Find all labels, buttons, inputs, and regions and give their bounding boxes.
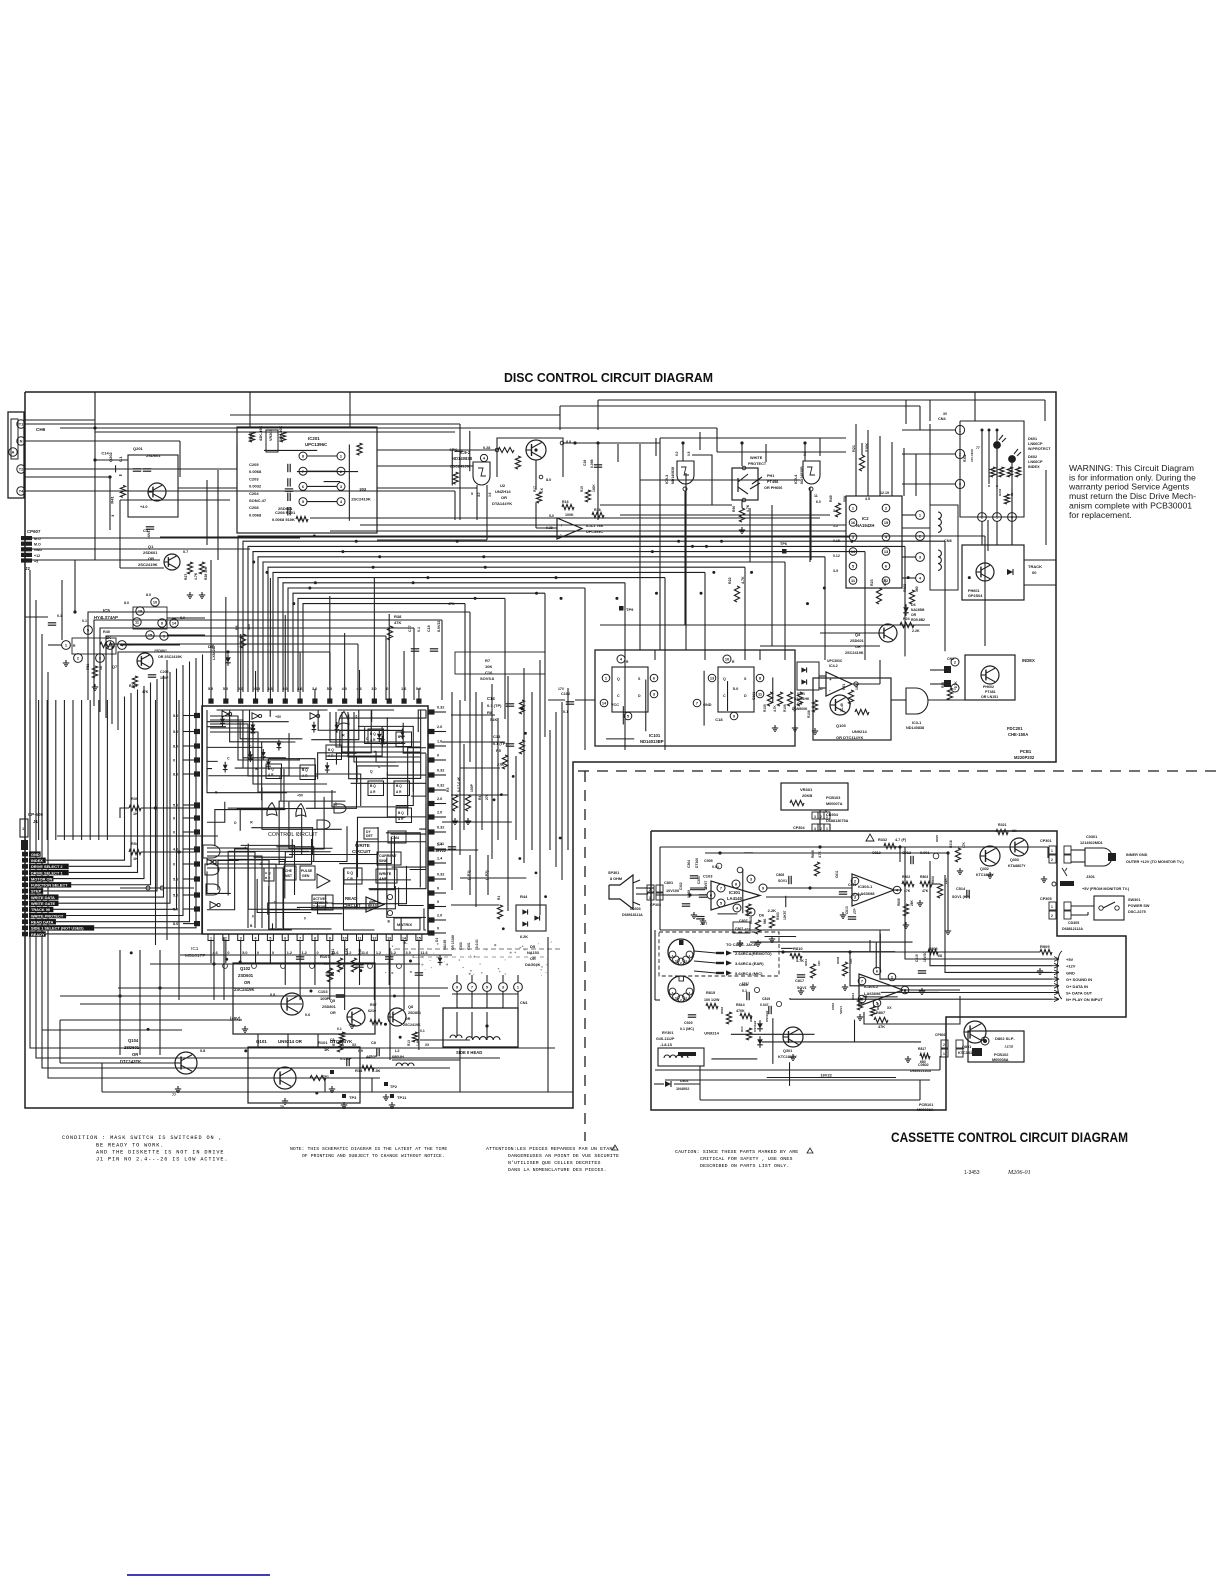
svg-text:PROTECT: PROTECT [748,462,767,466]
svg-text:C17: C17 [408,625,412,632]
svg-text:SP301: SP301 [608,871,619,875]
svg-text:1.2: 1.2 [376,951,381,955]
svg-text:100K: 100K [592,484,596,492]
svg-text:100P: 100P [470,783,474,792]
svg-text:C304: C304 [687,860,691,868]
svg-text:0.1: 0.1 [420,1029,425,1033]
svg-text:R18: R18 [594,508,601,512]
svg-text:NA1942H: NA1942H [856,523,874,528]
svg-text:77: 77 [976,446,980,450]
svg-text:R15: R15 [580,486,584,492]
svg-text:C103: C103 [703,874,713,879]
svg-text:R41: R41 [331,949,335,955]
svg-text:4.0: 4.0 [477,492,481,497]
svg-text:R302: R302 [963,454,967,462]
svg-text:2.2K: 2.2K [768,908,777,913]
svg-text:PT458: PT458 [767,480,778,484]
svg-text:2SC2419K: 2SC2419K [138,562,158,567]
svg-text:VCC: VCC [611,703,619,707]
svg-text:SIDE 0 HEAD: SIDE 0 HEAD [456,1050,482,1055]
svg-text:OR 1S188: OR 1S188 [451,935,455,950]
svg-text:10K: 10K [817,960,821,966]
svg-text:D: D [820,687,823,691]
svg-text:11: 11 [814,494,818,498]
svg-text:D6: D6 [911,603,916,607]
svg-text:2.0: 2.0 [437,914,442,918]
svg-text:PH1: PH1 [767,474,774,478]
svg-text:PCB1: PCB1 [1020,749,1032,754]
svg-text:1.2: 1.2 [302,951,307,955]
svg-text:8.0: 8.0 [173,922,178,926]
svg-text:IC2: IC2 [862,516,869,521]
svg-text:DAG04K: DAG04K [525,963,541,967]
svg-text:Q102: Q102 [240,966,251,971]
svg-text:2.0: 2.0 [437,811,442,815]
svg-text:0.1 (TP): 0.1 (TP) [487,703,502,708]
svg-text:R: R [996,484,998,488]
svg-text:B C: B C [265,876,271,880]
svg-text:3V: 3V [943,412,948,416]
svg-text:CN8: CN8 [944,539,952,543]
svg-text:Q4: Q4 [855,633,861,637]
svg-text:R41: R41 [109,496,114,504]
svg-text:+12: +12 [34,554,40,558]
svg-text:10: 10 [725,657,729,662]
svg-text:D601: D601 [1028,437,1037,441]
svg-text:1N4002: 1N4002 [676,1087,689,1091]
svg-text:27P: 27P [853,907,857,914]
svg-text:IC5: IC5 [103,608,110,613]
svg-text:R24: R24 [903,617,910,621]
svg-text:10K: 10K [485,664,492,669]
svg-text:for replacement.: for replacement. [1069,510,1132,520]
svg-text:M51017P: M51017P [185,953,206,959]
svg-text:C816: C816 [831,1002,835,1010]
svg-text:8.0: 8.0 [546,478,551,482]
svg-text:10: 10 [153,600,157,605]
svg-text:INDEX: INDEX [31,858,43,863]
svg-text:R332: R332 [878,838,887,842]
svg-text:0.0032: 0.0032 [249,484,262,489]
svg-text:R42: R42 [358,949,362,955]
svg-text:R50: R50 [732,506,736,512]
svg-text:Q104: Q104 [128,1038,139,1043]
svg-text:C912: C912 [902,851,911,855]
svg-text:R909: R909 [1040,944,1050,949]
svg-text:100P: 100P [320,996,330,1001]
svg-text:3-0: 3-0 [833,509,838,513]
svg-text:+12V: +12V [1066,964,1076,969]
svg-text:R303: R303 [998,488,1002,496]
svg-text:MATRIX: MATRIX [397,922,412,927]
svg-text:1+1K: 1+1K [341,1038,345,1046]
svg-text:R51: R51 [86,664,90,670]
svg-text:1: 1 [210,937,212,941]
svg-text:CASSETTE CONTROL CIRCUIT DIAGR: CASSETTE CONTROL CIRCUIT DIAGRAM [891,1130,1128,1145]
svg-text:L2: L2 [395,1049,399,1053]
svg-text:+5V: +5V [1066,957,1074,962]
svg-text:C808: C808 [776,873,784,877]
svg-text:D68918111A: D68918111A [622,913,643,917]
svg-text:Q302: Q302 [980,867,989,871]
svg-text:0.7: 0.7 [183,550,188,554]
svg-text:CD304: CD304 [826,813,839,817]
svg-text:R40: R40 [103,630,110,634]
svg-text:IC9-3: IC9-3 [665,475,669,484]
svg-text:-1-8-1S: -1-8-1S [660,1043,673,1047]
svg-text:FUNCTION SELECT: FUNCTION SELECT [31,883,68,888]
svg-text:CP607: CP607 [27,529,41,534]
svg-text:4.7K: 4.7K [796,959,804,963]
svg-text:C905: C905 [704,859,713,863]
svg-text:2.2K: 2.2K [912,629,920,633]
svg-text:XX: XX [887,1006,892,1010]
svg-text:Q: Q [723,677,726,681]
svg-text:DESCRIBED ON PARTS LIST ONLY.: DESCRIBED ON PARTS LIST ONLY. [700,1163,789,1169]
svg-text:IC4-2: IC4-2 [829,664,838,668]
svg-text:D802 SLP-: D802 SLP- [995,1036,1015,1041]
svg-text:DSC-2275: DSC-2275 [1128,910,1146,914]
svg-text:3: 3 [814,815,816,819]
svg-text:WRITE GATE: WRITE GATE [31,901,56,906]
svg-text:POWER SW: POWER SW [1128,904,1150,908]
svg-text:300: 300 [247,624,251,630]
svg-text:2.6: 2.6 [437,725,442,729]
svg-text:1K: 1K [133,857,138,861]
svg-text:Q: Q [370,769,373,773]
svg-text:BE READY TO WORK.: BE READY TO WORK. [96,1143,164,1149]
svg-text:R54: R54 [131,842,139,846]
svg-text:GND: GND [31,852,40,857]
svg-text:0.0068: 0.0068 [249,512,262,517]
svg-text:0: 0 [437,754,439,758]
svg-text:100-190K: 100-190K [970,448,974,462]
svg-text:7: 7 [696,701,698,706]
svg-text:1: 1 [943,1052,945,1056]
svg-text:0.32: 0.32 [437,706,444,710]
svg-text:STEP: STEP [31,889,42,894]
svg-text:2: 2 [943,1043,945,1047]
svg-text:0.1 (TP): 0.1 (TP) [493,742,507,746]
svg-text:10V100: 10V100 [666,889,679,893]
svg-text:R108: R108 [807,710,811,718]
svg-text:4.7K: 4.7K [818,851,822,858]
svg-text:8.0: 8.0 [173,745,178,749]
svg-text:1: 1 [1051,849,1053,853]
svg-text:C202: C202 [160,670,169,674]
svg-text:2: 2 [649,888,651,892]
svg-text:CP305: CP305 [1040,897,1052,901]
svg-text:0: 0 [173,817,175,821]
svg-text:READ: READ [345,896,357,901]
svg-text:5.0: 5.0 [173,894,178,898]
svg-text:8: 8 [314,937,316,941]
svg-text:0: 0 [173,863,175,867]
svg-text:R04: R04 [740,1026,744,1032]
svg-text:C11: C11 [437,841,445,846]
svg-text:R106: R106 [783,704,787,712]
svg-text:R105: R105 [763,704,767,712]
svg-text:UPC1396C: UPC1396C [305,442,328,447]
svg-text:CP303: CP303 [650,903,661,907]
svg-text:DISC CONTROL CIRCUIT DIAGRA: DISC CONTROL CIRCUIT DIAGRAM [504,371,713,385]
svg-text:A R: A R [370,790,376,794]
svg-text:0: 0 [227,951,229,955]
svg-text:R814: R814 [736,1003,745,1007]
svg-text:C6: C6 [330,1038,335,1042]
svg-text:Q5: Q5 [330,999,335,1003]
svg-text:OR: OR [330,1011,336,1015]
svg-text:0.0068 510K: 0.0068 510K [272,517,295,522]
svg-text:LN66CP: LN66CP [1028,442,1043,446]
svg-text:NA165M: NA165M [911,608,925,612]
svg-text:DTA144YK: DTA144YK [492,501,512,506]
svg-text:5.0: 5.0 [242,951,247,955]
svg-text:M206-01: M206-01 [1007,1169,1031,1176]
svg-text:IC101: IC101 [649,733,661,738]
svg-text:KS01B2: KS01B2 [765,1010,769,1022]
svg-text:0.15: 0.15 [833,539,840,543]
svg-text:D68813075A: D68813075A [826,819,849,823]
svg-text:J2: J2 [25,566,30,571]
svg-text:1.6: 1.6 [437,740,442,744]
svg-text:0: 0 [316,951,318,955]
svg-text:R4: R4 [478,796,482,800]
svg-text:OR: OR [244,980,250,985]
svg-text:1: 1 [22,827,24,831]
svg-text:SOV5.8: SOV5.8 [480,676,495,681]
svg-text:17V: 17V [558,687,565,691]
svg-text:8.0: 8.0 [173,773,178,777]
svg-text:7: 7 [861,979,863,984]
svg-text:8.0: 8.0 [124,601,129,605]
svg-text:R804: R804 [931,876,935,884]
svg-text:DANGEREUSES AN POINT DE VUE: DANGEREUSES AN POINT DE VUE SECURITE [508,1153,619,1159]
svg-text:IC303-1: IC303-1 [858,884,873,889]
svg-text:16V47: 16V47 [147,529,151,539]
svg-text:12.19: 12.19 [880,491,889,495]
svg-text:D6: D6 [759,912,765,917]
svg-text:C18: C18 [583,460,587,466]
svg-text:B Q: B Q [396,784,402,788]
svg-text:100K: 100K [565,513,574,517]
svg-text:C R: C R [347,877,353,881]
svg-text:2SD801: 2SD801 [408,1011,421,1015]
svg-text:R22: R22 [728,577,732,584]
svg-text:R811: R811 [804,959,808,966]
svg-text:A R: A R [396,790,402,794]
svg-text:10: 10 [343,937,347,941]
svg-text:303: 303 [359,486,366,491]
svg-text:R809: R809 [811,850,815,858]
svg-text:C205: C205 [249,462,259,467]
svg-text:R44: R44 [520,894,528,899]
svg-text:43K-49K: 43K-49K [259,426,263,441]
svg-text:0.0068: 0.0068 [249,469,262,474]
svg-text:NOTE: THIS SCHEMATIC DIAGRAM I: NOTE: THIS SCHEMATIC DIAGRAM IS THE LATE… [290,1146,447,1152]
svg-text:C0301: C0301 [1086,835,1097,839]
svg-text:0: 0 [437,887,439,891]
svg-text:0.047: 0.047 [760,1003,769,1007]
svg-text:0.28: 0.28 [483,446,490,450]
svg-text:G Q: G Q [265,871,271,875]
svg-text:G+ SOUND IN: G+ SOUND IN [1066,977,1092,982]
svg-text:WHITE: WHITE [750,456,763,460]
svg-text:5.0: 5.0 [733,686,739,691]
svg-text:R815: R815 [706,991,715,995]
svg-text:0: 0 [173,759,175,763]
svg-text:C18: C18 [427,625,431,632]
svg-text:Q303: Q303 [1010,858,1019,862]
svg-text:IC9-4: IC9-4 [794,474,798,484]
svg-text:RD5.6B2: RD5.6B2 [911,618,925,622]
svg-text:UN9214 OR: UN9214 OR [278,1039,303,1044]
svg-text:D68812112A: D68812112A [1062,927,1083,931]
svg-text:5.0: 5.0 [173,804,178,808]
svg-text:D1: D1 [435,938,439,942]
svg-text:2SD601: 2SD601 [143,550,158,555]
svg-text:R28 10K: R28 10K [204,566,208,580]
svg-text:DRIVE SELECT 2: DRIVE SELECT 2 [31,864,63,869]
svg-text:20KB: 20KB [802,793,812,798]
svg-text:CONTROL CIRCUIT: CONTROL CIRCUIT [268,832,318,838]
svg-text:PULSE: PULSE [301,869,313,873]
svg-text:LX842BP: LX842BP [212,644,216,660]
svg-text:16V47: 16V47 [704,881,708,890]
svg-text:7: 7 [299,937,301,941]
svg-text:47K: 47K [142,690,149,694]
svg-text:N+ PLAY ON INPUT: N+ PLAY ON INPUT [1066,997,1103,1002]
svg-text:1K: 1K [99,665,103,670]
svg-text:0.001: 0.001 [920,851,930,855]
svg-text:2SC2419K: 2SC2419K [403,1023,421,1027]
svg-text:2: 2 [1051,858,1053,862]
svg-text:R820: R820 [935,834,939,842]
svg-text:B Q: B Q [302,768,308,772]
svg-text:OR PH606: OR PH606 [764,486,782,490]
svg-text:6-8K: 6-8K [345,947,349,955]
svg-text:SOV1: SOV1 [839,1006,843,1014]
svg-text:1K: 1K [324,1047,329,1052]
svg-text:6210: 6210 [368,1009,376,1013]
svg-text:2SD801: 2SD801 [322,1005,336,1009]
svg-text:SOV1: SOV1 [797,986,807,990]
svg-text:LA63698: LA63698 [864,991,881,996]
svg-text:2SD601: 2SD601 [124,1045,140,1050]
svg-text:UPC393C: UPC393C [827,659,843,663]
svg-text:10K97: 10K97 [783,910,787,920]
svg-text:TP9: TP9 [626,607,634,612]
svg-text:D5: D5 [530,944,536,949]
svg-text:47K: 47K [878,1025,885,1029]
svg-text:GP2S04: GP2S04 [968,594,983,598]
svg-text:PCB103: PCB103 [826,796,840,800]
svg-text:C: C [723,694,726,698]
svg-text:C203: C203 [249,476,259,481]
svg-text:3.64RCA (EAR): 3.64RCA (EAR) [735,961,764,966]
svg-text:C514: C514 [956,887,966,891]
svg-text:1214922MD1: 1214922MD1 [1080,841,1103,845]
svg-text:0.1 (MC): 0.1 (MC) [680,1027,695,1031]
svg-text:4.5: 4.5 [865,497,870,501]
svg-text:WRITE DATA: WRITE DATA [31,895,55,900]
svg-text:+5V (FROM MONITOR TV.): +5V (FROM MONITOR TV.) [1082,887,1130,891]
svg-text:0.068: 0.068 [687,890,691,898]
svg-text:D Q: D Q [347,871,353,875]
svg-text:GEN: GEN [302,874,310,878]
svg-text:16V22: 16V22 [820,1073,832,1078]
svg-text:12: 12 [372,937,376,941]
svg-text:R3: R3 [446,788,450,792]
svg-text:0.1: 0.1 [82,619,87,623]
svg-text:0: 0 [272,951,274,955]
svg-text:2: 2 [1051,914,1053,918]
svg-text:M00008A: M00008A [917,1108,934,1112]
svg-text:1458: 1458 [1004,1044,1014,1049]
svg-text:R803: R803 [920,875,928,879]
svg-text:J301: J301 [1086,874,1096,879]
svg-text:NA153: NA153 [527,951,539,955]
svg-text:SIDE 1 SELECT (NOT USED): SIDE 1 SELECT (NOT USED) [31,926,84,931]
svg-text:Q201: Q201 [133,446,144,451]
svg-text:0.1: 0.1 [57,614,62,618]
svg-text:68: 68 [938,954,942,958]
svg-text:SW301: SW301 [1128,898,1140,902]
svg-text:R: R [988,484,990,488]
svg-text:C818: C818 [739,983,748,987]
svg-text:CP304: CP304 [793,826,805,830]
svg-text:READY: READY [31,932,45,937]
svg-text:Q: Q [617,677,620,681]
svg-text:0.1: 0.1 [337,1027,342,1031]
svg-text:8 OHM: 8 OHM [610,877,622,881]
svg-text:READ DATA: READ DATA [31,919,54,924]
svg-text:4.7K: 4.7K [741,576,745,584]
svg-text:2SD601: 2SD601 [146,453,161,458]
svg-text:0: 0 [304,916,306,920]
svg-text:C102: C102 [561,692,570,696]
svg-text:M00007A: M00007A [826,802,843,806]
svg-text:1: 1 [1051,905,1053,909]
svg-text:C819: C819 [762,997,770,1001]
svg-text:1.2: 1.2 [287,951,292,955]
svg-text:W.PROTECT: W.PROTECT [1028,447,1051,451]
svg-text:+5V: +5V [275,715,282,719]
svg-text:C817: C817 [795,979,804,983]
svg-text:SOV1 (HP): SOV1 (HP) [952,895,971,899]
svg-text:MST: MST [285,874,292,878]
svg-text:15: 15 [417,937,421,941]
svg-text:CAUTION: SINCE THESE PARTS M: CAUTION: SINCE THESE PARTS MARKED BY ARE [675,1149,798,1155]
svg-text:R17: R17 [533,486,537,492]
svg-text:C103: C103 [318,989,328,994]
svg-text:INDEX: INDEX [1022,658,1035,663]
svg-text:M.O: M.O [34,543,41,547]
svg-text:8.9V32: 8.9V32 [437,621,441,632]
svg-text:FDC201: FDC201 [1007,726,1023,731]
svg-text:IC1: IC1 [191,946,199,952]
svg-text:51K: 51K [490,717,497,722]
svg-text:680UH: 680UH [392,1055,404,1059]
svg-text:88: 88 [1010,492,1014,496]
svg-text:0.32: 0.32 [437,769,444,773]
svg-text:11: 11 [358,937,362,941]
svg-text:R303: R303 [776,912,780,920]
svg-text:0.32: 0.32 [437,826,444,830]
svg-text:100 1/2W: 100 1/2W [704,998,720,1002]
svg-text:U2: U2 [500,483,506,488]
svg-text:1-8K: 1-8K [416,1038,420,1046]
